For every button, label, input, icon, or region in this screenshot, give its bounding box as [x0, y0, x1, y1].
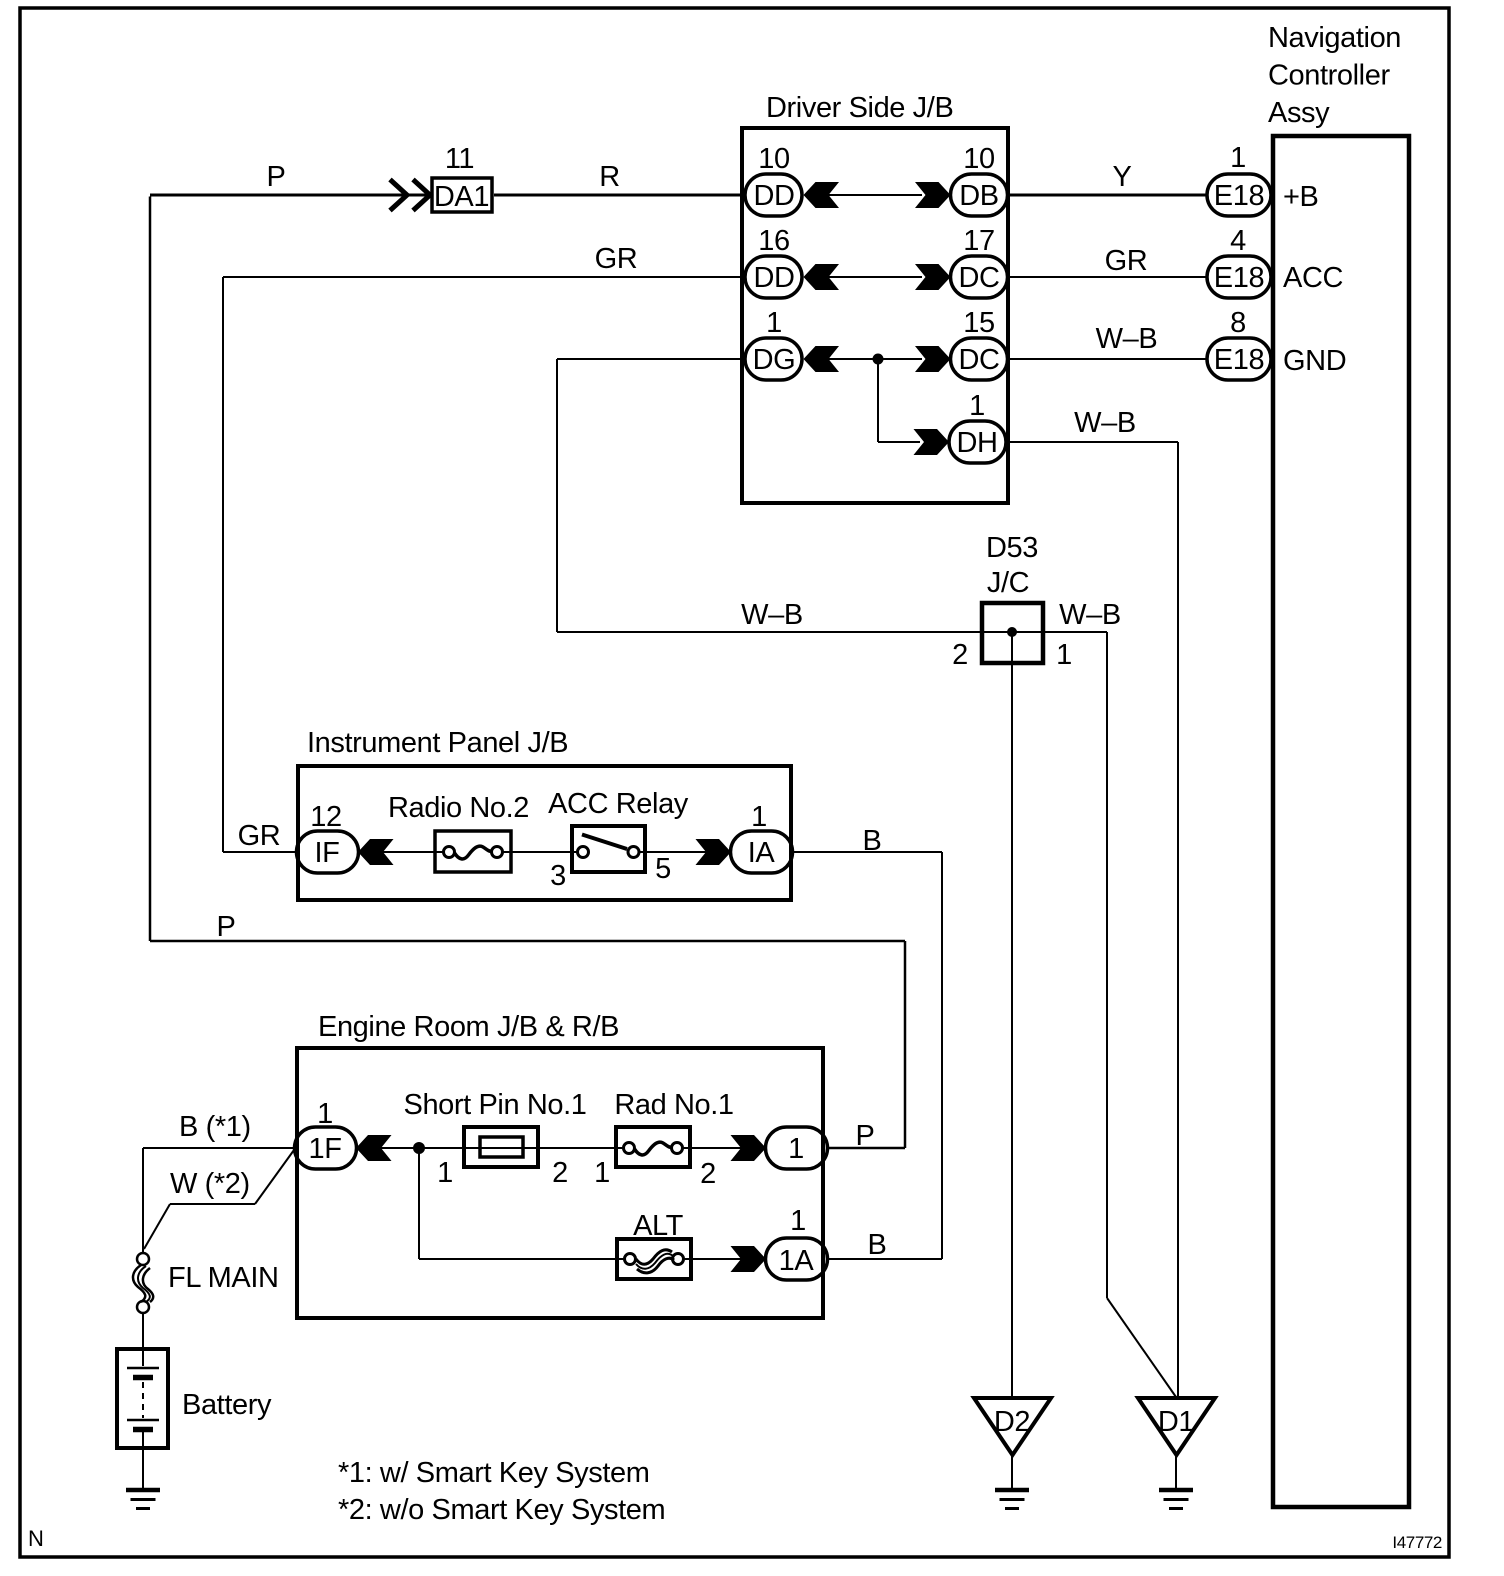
wire Y — [1010, 194, 1207, 197]
svg-text:Short Pin No.1: Short Pin No.1 — [404, 1089, 587, 1121]
svg-text:IA: IA — [748, 837, 776, 869]
svg-text:1: 1 — [437, 1157, 453, 1189]
svg-text:B: B — [863, 825, 882, 857]
ground D1 — [1159, 1490, 1193, 1509]
svg-text:GND: GND — [1283, 345, 1346, 377]
svg-text:Radio No.2: Radio No.2 — [388, 792, 529, 824]
svg-text:P: P — [856, 1120, 875, 1152]
svg-text:Assy: Assy — [1268, 97, 1330, 129]
svg-text:Controller: Controller — [1268, 60, 1390, 92]
short pin No.1 — [404, 1089, 587, 1167]
svg-text:GR: GR — [1105, 245, 1148, 277]
svg-text:E18: E18 — [1214, 344, 1264, 376]
battery B1 — [117, 1349, 272, 1448]
connector DD pin 16 — [745, 225, 802, 298]
svg-text:DD: DD — [753, 180, 794, 212]
svg-text:DB: DB — [959, 180, 999, 212]
wire junction to ALT — [419, 1148, 625, 1259]
wire IF to fuse — [381, 851, 444, 853]
svg-text:2: 2 — [552, 1157, 568, 1189]
navigation controller assy U1 label — [1268, 22, 1401, 129]
svg-text:W (*2): W (*2) — [170, 1168, 250, 1200]
svg-text:ACC: ACC — [1283, 262, 1343, 294]
svg-text:10: 10 — [963, 143, 994, 175]
svg-text:IF: IF — [315, 837, 340, 869]
wire to DH — [878, 359, 920, 442]
svg-text:Engine Room J/B & R/B: Engine Room J/B & R/B — [318, 1011, 619, 1043]
svg-text:16: 16 — [758, 225, 789, 257]
ground D2 — [995, 1490, 1029, 1509]
svg-text:ACC Relay: ACC Relay — [548, 788, 689, 820]
svg-text:DC: DC — [958, 262, 999, 294]
connector DH pin 1 — [949, 390, 1006, 463]
wire W-B from DG to J/C — [557, 359, 1107, 632]
arrow left 1F — [356, 1135, 392, 1161]
svg-text:W–B: W–B — [1096, 323, 1158, 355]
svg-text:1: 1 — [790, 1205, 806, 1237]
svg-text:12: 12 — [310, 801, 341, 833]
svg-text:2: 2 — [700, 1158, 716, 1190]
connector 1 engine — [766, 1127, 828, 1169]
arrow right IA — [696, 839, 732, 865]
svg-text:17: 17 — [963, 225, 994, 257]
arrow left row1 — [804, 182, 840, 208]
svg-text:W–B: W–B — [741, 599, 803, 631]
svg-text:P: P — [267, 161, 286, 193]
driver side J/B box — [742, 92, 1008, 503]
wire GR right — [1010, 276, 1207, 278]
svg-text:8: 8 — [1230, 307, 1246, 339]
svg-text:10: 10 — [758, 143, 789, 175]
svg-text:R: R — [599, 161, 620, 193]
svg-text:D1: D1 — [1158, 1406, 1194, 1438]
instrument panel J/B box — [298, 727, 791, 900]
wire battery to ground — [142, 1432, 144, 1489]
connector DD pin 10 — [745, 143, 802, 216]
wire FL MAIN to battery — [142, 1313, 144, 1366]
connector 1F pin 1 — [295, 1098, 357, 1169]
node junction engine — [413, 1142, 425, 1154]
svg-text:2: 2 — [952, 639, 968, 671]
wire W2 alternate — [144, 1150, 294, 1249]
arrow left row2 — [804, 264, 840, 290]
connector E18 pin 8 — [1207, 307, 1271, 380]
svg-text:+B: +B — [1283, 181, 1318, 213]
wire D1 to ground — [1175, 1455, 1177, 1489]
svg-text:3: 3 — [550, 860, 566, 892]
svg-text:1: 1 — [969, 390, 985, 422]
wire fuse to oval 1 — [682, 1147, 743, 1149]
svg-text:Instrument Panel J/B: Instrument Panel J/B — [307, 727, 568, 759]
connector DC pin 15 — [951, 307, 1008, 380]
connector 1A pin 1 — [766, 1205, 828, 1280]
wire B from IA — [792, 852, 942, 1259]
arrow left row3 — [804, 346, 840, 372]
svg-text:1F: 1F — [308, 1133, 341, 1165]
svg-text:W–B: W–B — [1059, 599, 1121, 631]
svg-text:DD: DD — [753, 262, 794, 294]
wire relay to IA — [638, 851, 708, 853]
svg-text:1A: 1A — [779, 1245, 815, 1277]
arrow right row1 — [915, 182, 951, 208]
svg-text:B: B — [868, 1229, 887, 1261]
svg-text:Rad No.1: Rad No.1 — [614, 1089, 733, 1121]
connector E18 pin 4 — [1207, 225, 1271, 298]
wire ALT to 1A — [683, 1258, 743, 1260]
ground battery — [126, 1490, 160, 1509]
connector E18 pin 1 — [1207, 142, 1271, 216]
svg-text:W–B: W–B — [1074, 407, 1136, 439]
wire fuse to relay — [502, 851, 578, 853]
arrow right oval 1 — [731, 1135, 767, 1161]
wire row1 inside J/B — [828, 194, 922, 196]
arrow right row2 — [915, 264, 951, 290]
wire P middle — [150, 941, 905, 1148]
svg-text:Battery: Battery — [182, 1389, 272, 1421]
connector DG pin 1 — [745, 307, 802, 380]
svg-text:DC: DC — [958, 344, 999, 376]
wire J/C pin1 down to D1 — [1107, 632, 1176, 1397]
navigation controller assy box — [1273, 136, 1409, 1507]
svg-text:1: 1 — [766, 307, 782, 339]
wire row3 inside J/B — [828, 358, 922, 360]
svg-text:DG: DG — [753, 344, 796, 376]
svg-text:1: 1 — [1230, 142, 1246, 174]
wire W-B from DH to D1 — [1008, 442, 1178, 1398]
svg-text:Driver Side J/B: Driver Side J/B — [766, 92, 953, 124]
svg-text:*2: w/o Smart Key System: *2: w/o Smart Key System — [338, 1494, 665, 1526]
wire row2 inside J/B — [828, 276, 922, 278]
fuse Radio No.2 — [388, 792, 529, 872]
svg-text:1: 1 — [594, 1157, 610, 1189]
engine room J/B box — [297, 1011, 823, 1318]
fusible link FL MAIN — [133, 1253, 279, 1313]
svg-text:1: 1 — [1056, 639, 1072, 671]
arrow right 1A — [731, 1246, 767, 1272]
svg-text:1: 1 — [788, 1133, 804, 1165]
svg-text:1: 1 — [751, 801, 767, 833]
relay ACC Relay — [548, 788, 689, 872]
svg-text:DH: DH — [956, 427, 997, 459]
svg-text:N: N — [28, 1526, 44, 1551]
svg-text:1: 1 — [317, 1098, 333, 1130]
wire P top — [150, 195, 430, 941]
wire D2 to ground — [1011, 1455, 1013, 1489]
svg-text:*1: w/ Smart Key System: *1: w/ Smart Key System — [338, 1457, 650, 1489]
svg-text:D2: D2 — [994, 1406, 1030, 1438]
svg-text:E18: E18 — [1214, 262, 1264, 294]
wire J/C center down to D2 — [1011, 632, 1013, 1398]
svg-text:GR: GR — [238, 820, 281, 852]
svg-text:GR: GR — [595, 243, 638, 275]
svg-text:I47772: I47772 — [1392, 1533, 1442, 1552]
svg-text:J/C: J/C — [987, 567, 1029, 599]
svg-text:B (*1): B (*1) — [179, 1111, 251, 1143]
fuse Rad No.1 — [614, 1089, 733, 1167]
svg-text:4: 4 — [1230, 225, 1246, 257]
ground point D2 — [974, 1398, 1051, 1455]
svg-text:DA1: DA1 — [434, 181, 489, 213]
wire B1 to 1F — [143, 1148, 297, 1253]
svg-text:15: 15 — [963, 307, 994, 339]
wire 1F to short pin — [379, 1147, 624, 1149]
svg-text:Navigation: Navigation — [1268, 22, 1401, 54]
svg-text:P: P — [217, 911, 236, 943]
ground point D1 — [1138, 1398, 1215, 1455]
arrow left IF — [358, 839, 394, 865]
node junction row3 — [873, 354, 884, 365]
connector IF pin 12 — [297, 801, 359, 873]
arrow right DH — [914, 429, 950, 455]
connector IA pin 1 — [731, 801, 793, 873]
svg-text:FL MAIN: FL MAIN — [168, 1262, 279, 1294]
junction connector D53 J/C — [982, 532, 1043, 663]
connector DA1 — [390, 143, 492, 213]
wire R — [494, 194, 744, 197]
svg-text:11: 11 — [445, 143, 474, 175]
svg-text:E18: E18 — [1214, 180, 1264, 212]
svg-text:D53: D53 — [986, 532, 1038, 564]
connector DC pin 17 — [951, 225, 1008, 298]
svg-text:Y: Y — [1113, 161, 1132, 193]
svg-text:5: 5 — [655, 853, 671, 885]
arrow right row3 — [915, 346, 951, 372]
fusible link ALT — [617, 1210, 691, 1279]
wire GR left — [223, 277, 744, 852]
connector DB pin 10 — [951, 143, 1008, 216]
wire W-B row3 right — [1010, 358, 1207, 360]
